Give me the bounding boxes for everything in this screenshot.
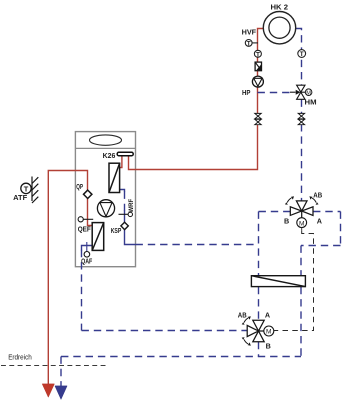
svg-text:AB: AB — [238, 310, 247, 319]
sensor T stub for HVF — [252, 42, 258, 44]
svg-text:WRF: WRF — [128, 199, 135, 213]
wire blue valve B port to KSP line and plate hx left — [259, 211, 291, 213]
svg-text:A: A — [317, 217, 322, 226]
heat exchanger hx1 — [109, 163, 120, 192]
svg-text:T: T — [300, 51, 304, 58]
pump HP — [252, 76, 263, 87]
sensor WRF — [119, 213, 129, 215]
svg-text:HM: HM — [305, 98, 317, 107]
diverting valve (bottom, AB/A/B) — [247, 320, 264, 342]
wire blue QAF line to bottom valve AB port — [81, 250, 83, 331]
wire blue plate hx left to bottom valve AB top — [258, 287, 260, 320]
shutoff valve pair on supply — [255, 113, 261, 125]
svg-text:A: A — [265, 311, 270, 320]
shutoff valve pair on return — [298, 113, 304, 125]
wire red left riser (to ground loop) — [48, 171, 92, 385]
wire red boiler stub to heat exchanger — [120, 156, 122, 168]
svg-text:KSP: KSP — [111, 226, 122, 235]
check valve on supply — [255, 62, 261, 71]
svg-text:HP: HP — [242, 88, 251, 97]
svg-text:M: M — [266, 329, 272, 336]
svg-text:T: T — [256, 51, 260, 58]
wire blue solid hx2 outlet to QAF corner — [82, 246, 93, 251]
svg-text:QEF: QEF — [78, 225, 92, 234]
svg-text:M: M — [306, 91, 311, 97]
svg-text:T: T — [247, 40, 251, 47]
svg-text:AB: AB — [313, 191, 322, 200]
rotation arrow right (middle valve) — [312, 198, 316, 203]
rotation arrow top-left (bottom valve) — [244, 318, 248, 323]
heating circuit HK2 — [263, 12, 295, 44]
boiler pump symbol — [97, 200, 114, 217]
wire blue dashed HP to HM valve — [258, 92, 291, 94]
wire blue plate hx right down to bottom return — [300, 287, 302, 357]
svg-text:HK 2: HK 2 — [271, 2, 289, 11]
wire blue dashed HK2 return riser — [296, 29, 302, 86]
svg-text:K26: K26 — [103, 151, 116, 160]
wire red supply main (HK2 to boiler) — [129, 29, 264, 170]
ground line Erdreich — [1, 365, 108, 367]
wire blue valve A port to plate hx right — [313, 211, 341, 213]
sensor T on supply line — [254, 50, 261, 58]
wire blue dashed KSP line outside boiler — [136, 244, 259, 246]
wire blue dashed below HM valve — [301, 100, 303, 201]
wire blue bottom return to ground triangle — [61, 356, 301, 358]
burner bar K26 — [117, 152, 133, 155]
svg-text:M: M — [299, 220, 305, 227]
supply triangle into ground (red) — [42, 384, 54, 397]
sensor QEF — [83, 218, 93, 220]
svg-text:B: B — [284, 217, 289, 226]
valve HM (3-way with motor) — [290, 85, 305, 99]
svg-text:HVF: HVF — [242, 28, 257, 37]
svg-text:B: B — [266, 341, 271, 350]
svg-text:Erdreich: Erdreich — [8, 354, 32, 361]
wire blue dashed hx1 to WRF — [124, 192, 126, 211]
svg-text:QAF: QAF — [81, 257, 93, 266]
mixing valve (middle, AB/A/B) — [290, 201, 313, 218]
return triangle into ground (blue) — [55, 386, 67, 400]
rotation arrow left (middle valve) — [287, 198, 291, 203]
svg-text:ATF: ATF — [13, 193, 27, 202]
svg-text:QP: QP — [76, 182, 83, 191]
boiler top divider — [75, 147, 135, 149]
control line dashed between valve motors — [301, 228, 303, 231]
wire blue solid WRF-KSP segment — [125, 210, 136, 245]
sensor QAF — [86, 242, 88, 251]
pump KSP (diamond) — [121, 222, 128, 229]
wire blue bottom valve B port down — [258, 342, 260, 357]
heat exchanger hx2 — [92, 223, 104, 251]
boiler top ellipse — [90, 135, 122, 145]
outdoor sensor ATF — [32, 177, 38, 204]
pump QP (diamond) — [84, 190, 92, 198]
wire blue solid hx1 outlet — [120, 190, 125, 193]
plate heat exchanger — [251, 276, 305, 287]
rotation arrow bottom-left (bottom valve) — [244, 339, 248, 344]
boiler cabinet outline — [75, 132, 135, 267]
sensor T on HK2 return line — [298, 50, 306, 59]
